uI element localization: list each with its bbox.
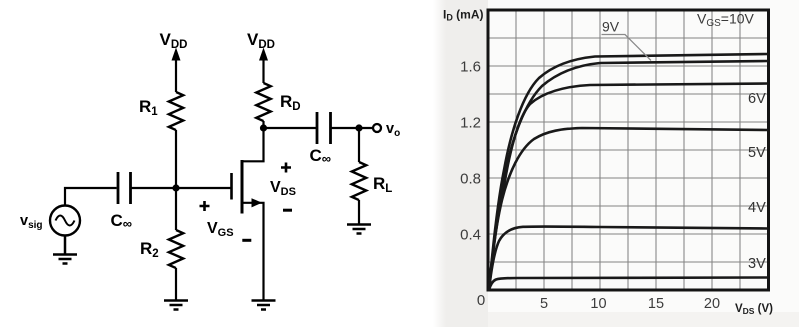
label VDS minus <box>283 209 292 212</box>
wire R1 to node <box>175 130 177 188</box>
svg-text:vo: vo <box>386 121 400 139</box>
svg-text:vsig: vsig <box>20 213 43 231</box>
axis label ID (mA) <box>443 8 484 23</box>
callout 9V leader line <box>602 35 652 61</box>
svg-text:0.4: 0.4 <box>460 227 481 244</box>
transistor Q1 drain lead <box>242 128 264 161</box>
label R1 <box>139 97 158 118</box>
curve VGS=6V <box>489 84 768 291</box>
svg-text:10: 10 <box>590 296 606 312</box>
resistor RL <box>352 162 366 200</box>
label RL <box>373 174 392 195</box>
label vsig <box>20 213 43 231</box>
node drain junction <box>260 124 267 131</box>
plot border <box>488 10 769 290</box>
ground under RL <box>347 225 371 234</box>
VDD arrow (drain rail) <box>259 48 268 84</box>
svg-text:5: 5 <box>540 296 548 312</box>
wire RD to drain node <box>262 121 264 128</box>
svg-text:RL: RL <box>373 174 392 195</box>
svg-text:C∞: C∞ <box>310 146 332 166</box>
capacitor C1 (input C-infinity) <box>118 172 131 204</box>
power VDD label (left rail) <box>160 30 188 51</box>
ground under R2 <box>164 301 188 310</box>
label RD <box>280 92 301 113</box>
svg-text:VDD: VDD <box>160 30 188 51</box>
resistor RD <box>256 83 270 121</box>
svg-text:6V: 6V <box>748 91 766 107</box>
scan background <box>433 0 799 327</box>
wire node to R2 <box>175 188 177 230</box>
svg-text:5V: 5V <box>748 145 766 161</box>
VDD arrow (left rail) <box>172 48 181 93</box>
power VDD label (drain rail) <box>247 30 275 51</box>
svg-text:R1: R1 <box>139 97 158 118</box>
callout 9V label <box>602 19 620 35</box>
wire drain node to C2 <box>264 127 318 129</box>
curve VGS=4V <box>489 227 768 290</box>
wire output node to RL <box>358 128 360 162</box>
source vsig <box>50 206 80 236</box>
wire R2 to ground <box>175 268 177 300</box>
label VGS <box>207 220 234 239</box>
svg-text:1.6: 1.6 <box>460 59 481 76</box>
curve VGS=9V <box>489 61 768 290</box>
svg-text:C∞: C∞ <box>111 211 133 231</box>
label VGS plus <box>200 201 210 211</box>
svg-text:4V: 4V <box>748 200 766 216</box>
svg-text:1.2: 1.2 <box>460 115 481 132</box>
svg-text:0: 0 <box>477 292 485 309</box>
node output junction <box>355 124 362 131</box>
curve VGS=10V <box>489 54 768 290</box>
label VGS=10V <box>697 11 755 30</box>
wire C2 to output node <box>331 127 373 129</box>
label vo <box>386 121 400 139</box>
label C2 C-infinity <box>310 146 332 166</box>
label R2 <box>140 239 159 260</box>
curve VGS=5V <box>489 128 768 290</box>
label VGS minus <box>242 239 251 242</box>
ground under source <box>252 301 276 310</box>
transistor Q1 channel bar <box>241 160 244 214</box>
axis label VDS (V) <box>735 303 773 316</box>
terminal vo open circle <box>373 124 381 132</box>
resistor R2 <box>169 230 183 268</box>
transistor Q1 (NMOS) gate bar <box>230 173 233 200</box>
transistor Q1 source lead with arrow <box>242 198 264 299</box>
node gate-bias junction <box>172 184 179 191</box>
svg-text:RD: RD <box>280 92 301 113</box>
resistor R1 <box>169 92 183 130</box>
svg-text:VDD: VDD <box>247 30 275 51</box>
ground under vsig <box>53 236 77 264</box>
label VDS plus <box>281 163 291 173</box>
svg-text:VDS: VDS <box>270 179 296 198</box>
wire C1 to gate <box>131 187 232 189</box>
svg-text:9V: 9V <box>602 19 620 35</box>
svg-text:0.8: 0.8 <box>460 171 481 188</box>
label VDS <box>270 179 296 198</box>
svg-text:15: 15 <box>648 296 664 312</box>
svg-text:20: 20 <box>704 296 720 312</box>
curve VGS=3V <box>489 278 768 291</box>
capacitor C2 (output C-infinity) <box>317 112 331 144</box>
label C1 C-infinity <box>111 211 133 231</box>
wire RL to ground <box>358 200 360 224</box>
wire vsig to C1 <box>65 188 117 206</box>
svg-text:VGS: VGS <box>207 220 234 239</box>
svg-text:R2: R2 <box>140 239 159 260</box>
svg-text:VDS (V): VDS (V) <box>735 303 773 316</box>
svg-text:3V: 3V <box>748 256 766 272</box>
svg-text:VGS=10V: VGS=10V <box>697 11 755 30</box>
